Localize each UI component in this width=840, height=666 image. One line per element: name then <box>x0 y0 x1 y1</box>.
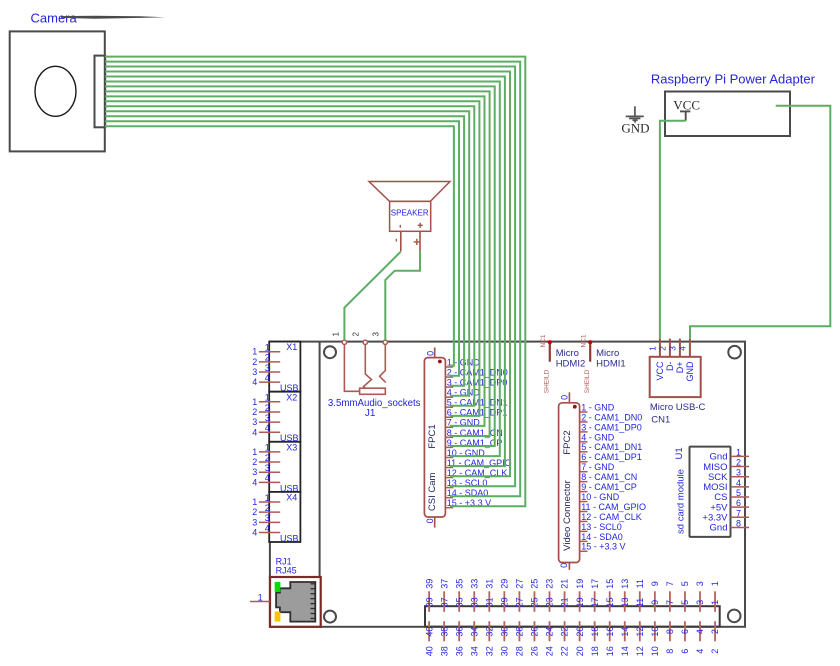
svg-text:13: 13 <box>620 579 630 589</box>
svg-text:5: 5 <box>680 600 690 605</box>
svg-text:2: 2 <box>710 649 720 654</box>
svg-text:25: 25 <box>530 579 540 589</box>
svg-text:5: 5 <box>680 581 690 586</box>
svg-text:NC1: NC1 <box>581 334 588 347</box>
svg-text:GND: GND <box>685 361 695 382</box>
svg-text:33: 33 <box>469 597 479 607</box>
svg-text:11 - CAM_GPIO: 11 - CAM_GPIO <box>581 502 646 512</box>
svg-text:4: 4 <box>252 527 257 537</box>
svg-text:2 - CAM1_DN0: 2 - CAM1_DN0 <box>581 412 642 422</box>
svg-text:3: 3 <box>695 581 705 586</box>
svg-text:sd card module: sd card module <box>676 469 687 534</box>
svg-text:1: 1 <box>710 600 720 605</box>
svg-text:11: 11 <box>635 598 645 607</box>
svg-text:6 - CAM1_DP1: 6 - CAM1_DP1 <box>581 452 642 462</box>
svg-text:15 - +3.3 V: 15 - +3.3 V <box>581 542 625 552</box>
svg-text:HDMI1: HDMI1 <box>596 358 626 369</box>
svg-text:12: 12 <box>635 627 645 637</box>
svg-text:6: 6 <box>736 498 741 508</box>
svg-text:40: 40 <box>424 627 434 637</box>
svg-text:38: 38 <box>439 646 449 656</box>
svg-text:0: 0 <box>559 563 569 568</box>
svg-text:4 - GND: 4 - GND <box>581 432 615 442</box>
svg-text:1: 1 <box>265 443 270 453</box>
svg-text:32: 32 <box>485 646 495 656</box>
svg-text:8: 8 <box>665 629 675 634</box>
svg-text:1: 1 <box>265 493 270 503</box>
svg-text:17: 17 <box>590 579 600 589</box>
svg-text:5: 5 <box>736 488 741 498</box>
svg-text:5 - CAM1_DN1: 5 - CAM1_DN1 <box>581 442 642 452</box>
svg-text:30: 30 <box>500 627 510 637</box>
svg-text:39: 39 <box>424 597 434 607</box>
svg-text:3: 3 <box>252 417 257 427</box>
svg-text:39: 39 <box>424 579 434 589</box>
svg-text:36: 36 <box>454 627 464 637</box>
svg-text:8: 8 <box>736 518 741 528</box>
svg-text:3: 3 <box>265 413 270 423</box>
svg-text:VCC: VCC <box>655 361 665 381</box>
svg-text:10: 10 <box>650 627 660 637</box>
svg-text:1: 1 <box>648 346 658 351</box>
svg-text:32: 32 <box>485 627 495 637</box>
svg-text:9: 9 <box>650 600 660 605</box>
svg-text:8 - CAM1_CN: 8 - CAM1_CN <box>581 472 637 482</box>
svg-text:27: 27 <box>515 597 525 607</box>
svg-text:11: 11 <box>635 579 645 588</box>
svg-text:29: 29 <box>500 597 510 607</box>
svg-text:3: 3 <box>668 346 678 351</box>
svg-text:12: 12 <box>635 646 645 656</box>
svg-text:1 - GND: 1 - GND <box>581 402 615 412</box>
svg-text:SHEILD: SHEILD <box>543 369 550 393</box>
svg-text:0: 0 <box>425 518 435 523</box>
svg-text:1: 1 <box>252 397 257 407</box>
svg-text:3: 3 <box>252 467 257 477</box>
svg-text:Raspberry Pi Power Adapter: Raspberry Pi Power Adapter <box>651 72 816 87</box>
svg-text:CN1: CN1 <box>651 414 670 425</box>
svg-text:24: 24 <box>545 646 555 656</box>
svg-text:21: 21 <box>560 579 570 589</box>
svg-text:3 - CAM1_DP0: 3 - CAM1_DP0 <box>581 422 642 432</box>
svg-text:34: 34 <box>469 646 479 656</box>
svg-text:FPC2: FPC2 <box>562 430 573 454</box>
svg-text:1: 1 <box>252 497 257 507</box>
svg-text:15: 15 <box>605 597 615 607</box>
svg-text:SHEILD: SHEILD <box>584 369 591 393</box>
svg-text:0: 0 <box>425 351 435 356</box>
svg-text:4: 4 <box>265 423 270 433</box>
svg-text:2: 2 <box>736 458 741 468</box>
svg-text:14 - SDA0: 14 - SDA0 <box>581 532 623 542</box>
svg-text:D+: D+ <box>675 362 685 374</box>
svg-text:J1: J1 <box>365 408 376 419</box>
svg-text:3: 3 <box>252 517 257 527</box>
svg-text:3: 3 <box>695 600 705 605</box>
svg-text:3: 3 <box>252 367 257 377</box>
svg-text:31: 31 <box>485 579 495 589</box>
svg-text:38: 38 <box>439 627 449 637</box>
svg-text:40: 40 <box>424 646 434 656</box>
svg-text:7: 7 <box>665 600 675 605</box>
svg-text:1: 1 <box>331 332 340 337</box>
svg-text:24: 24 <box>545 627 555 637</box>
svg-text:23: 23 <box>545 597 555 607</box>
svg-text:18: 18 <box>590 646 600 656</box>
svg-text:Micro USB-C: Micro USB-C <box>650 402 706 413</box>
svg-text:21: 21 <box>560 597 570 607</box>
svg-text:2: 2 <box>252 457 257 467</box>
svg-text:X2: X2 <box>286 392 297 402</box>
svg-text:2: 2 <box>252 357 257 367</box>
svg-text:2: 2 <box>252 407 257 417</box>
svg-text:3: 3 <box>265 513 270 523</box>
svg-text:VCC: VCC <box>673 97 700 112</box>
svg-text:8: 8 <box>665 649 675 654</box>
svg-text:1: 1 <box>252 447 257 457</box>
svg-text:30: 30 <box>500 646 510 656</box>
svg-text:13: 13 <box>620 597 630 607</box>
svg-text:4: 4 <box>736 478 741 488</box>
svg-text:Video Connector: Video Connector <box>562 480 573 551</box>
svg-text:13 - SCL0: 13 - SCL0 <box>581 522 622 532</box>
svg-text:12 - CAM_CLK: 12 - CAM_CLK <box>581 512 642 522</box>
svg-text:4: 4 <box>695 629 705 634</box>
svg-text:2: 2 <box>252 507 257 517</box>
svg-text:1: 1 <box>258 593 263 603</box>
svg-text:37: 37 <box>439 597 449 607</box>
svg-text:3: 3 <box>371 332 380 337</box>
svg-text:SPEAKER: SPEAKER <box>391 209 429 218</box>
svg-text:X3: X3 <box>286 442 297 452</box>
svg-text:3: 3 <box>265 463 270 473</box>
svg-text:25: 25 <box>530 597 540 607</box>
svg-text:10: 10 <box>650 646 660 656</box>
svg-text:USB: USB <box>280 533 299 543</box>
svg-text:17: 17 <box>590 597 600 607</box>
svg-text:28: 28 <box>515 646 525 656</box>
svg-text:31: 31 <box>485 597 495 607</box>
svg-text:22: 22 <box>560 627 570 637</box>
svg-text:20: 20 <box>575 627 585 637</box>
svg-text:18: 18 <box>590 627 600 637</box>
svg-text:20: 20 <box>575 646 585 656</box>
svg-text:4: 4 <box>695 649 705 654</box>
svg-text:27: 27 <box>515 579 525 589</box>
svg-text:4: 4 <box>252 477 257 487</box>
svg-text:1: 1 <box>265 343 270 353</box>
svg-text:FPC1: FPC1 <box>427 424 438 448</box>
svg-text:CSI Cam: CSI Cam <box>427 472 438 511</box>
svg-text:35: 35 <box>454 597 464 607</box>
svg-text:GND: GND <box>621 121 649 136</box>
svg-text:4: 4 <box>265 373 270 383</box>
svg-text:3: 3 <box>736 468 741 478</box>
svg-text:2: 2 <box>658 346 668 351</box>
svg-text:7: 7 <box>736 508 741 518</box>
svg-text:1: 1 <box>710 581 720 586</box>
svg-text:RJ45: RJ45 <box>276 565 297 575</box>
svg-text:6: 6 <box>680 629 690 634</box>
svg-text:9: 9 <box>650 581 660 586</box>
svg-text:9 - CAM1_CP: 9 - CAM1_CP <box>581 482 637 492</box>
svg-text:36: 36 <box>454 646 464 656</box>
svg-text:35: 35 <box>454 579 464 589</box>
svg-text:Gnd: Gnd <box>710 523 728 534</box>
svg-text:NC1: NC1 <box>540 334 547 347</box>
svg-text:14: 14 <box>620 627 630 637</box>
svg-text:28: 28 <box>515 627 525 637</box>
svg-text:3: 3 <box>265 363 270 373</box>
svg-text:4: 4 <box>252 377 257 387</box>
svg-text:1: 1 <box>252 347 257 357</box>
svg-text:19: 19 <box>575 579 585 589</box>
svg-text:14: 14 <box>620 646 630 656</box>
svg-text:2: 2 <box>265 403 270 413</box>
svg-text:26: 26 <box>530 646 540 656</box>
svg-text:7: 7 <box>665 581 675 586</box>
svg-text:29: 29 <box>500 579 510 589</box>
svg-text:26: 26 <box>530 627 540 637</box>
svg-text:15: 15 <box>605 579 615 589</box>
svg-text:16: 16 <box>605 646 615 656</box>
svg-text:4: 4 <box>678 346 688 351</box>
svg-text:10 - GND: 10 - GND <box>581 492 620 502</box>
svg-text:2: 2 <box>710 629 720 634</box>
svg-text:2: 2 <box>265 353 270 363</box>
svg-text:4: 4 <box>265 473 270 483</box>
svg-text:2: 2 <box>265 453 270 463</box>
svg-text:HDMI2: HDMI2 <box>556 358 586 369</box>
svg-text:D-: D- <box>665 362 675 372</box>
svg-text:37: 37 <box>439 579 449 589</box>
svg-text:6: 6 <box>680 649 690 654</box>
svg-text:19: 19 <box>575 597 585 607</box>
svg-text:23: 23 <box>545 579 555 589</box>
svg-text:0: 0 <box>559 395 569 400</box>
svg-text:22: 22 <box>560 646 570 656</box>
svg-text:7 - GND: 7 - GND <box>581 462 615 472</box>
svg-text:1: 1 <box>265 393 270 403</box>
svg-text:4: 4 <box>265 523 270 533</box>
svg-text:1: 1 <box>736 447 741 457</box>
svg-text:34: 34 <box>469 627 479 637</box>
svg-text:33: 33 <box>469 579 479 589</box>
svg-text:4: 4 <box>252 427 257 437</box>
svg-text:2: 2 <box>351 332 360 337</box>
svg-text:X1: X1 <box>286 342 297 352</box>
svg-text:2: 2 <box>265 503 270 513</box>
svg-text:U1: U1 <box>674 447 685 459</box>
svg-text:X4: X4 <box>286 493 297 503</box>
svg-text:16: 16 <box>605 627 615 637</box>
